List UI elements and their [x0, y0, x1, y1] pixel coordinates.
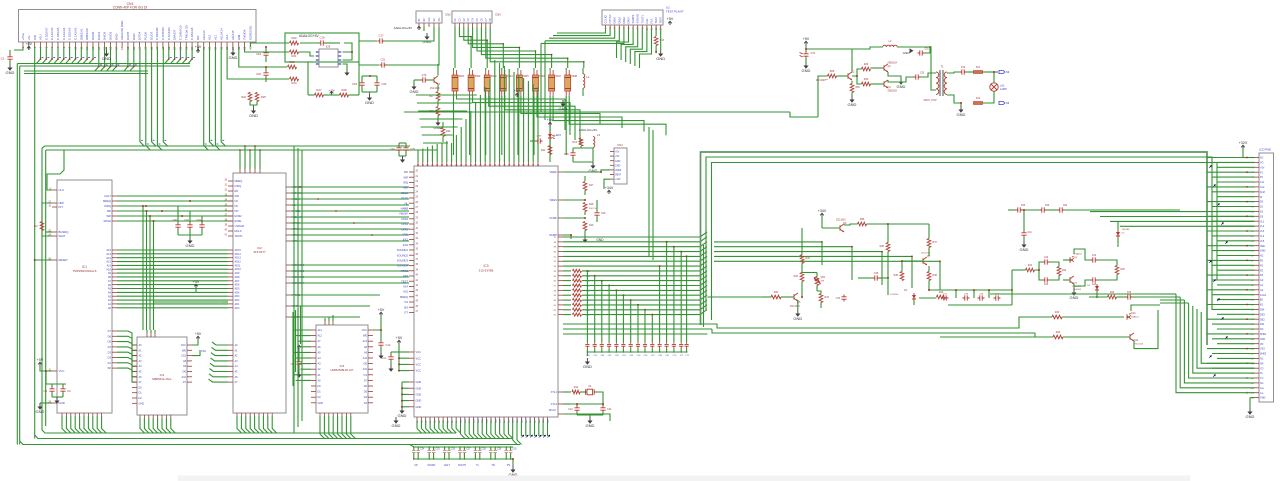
svg-text:GND: GND	[114, 34, 118, 40]
capacitor C66 on video line	[643, 342, 647, 348]
svg-text:VCC: VCC	[362, 329, 367, 332]
Q5 network wires	[801, 264, 803, 273]
wire VREF IC3 to CN4	[563, 170, 610, 172]
resistor R56 under Q2	[850, 84, 854, 93]
capacitor C58 on video line	[585, 342, 589, 348]
IC3 left VCC pins	[409, 351, 414, 353]
diode D3 and R46 C46 row	[1095, 286, 1099, 290]
svg-text:AD4: AD4	[235, 291, 240, 294]
svg-text:SOUND: SOUND	[636, 14, 640, 23]
transistor Q8 2SA612	[1069, 257, 1071, 263]
svg-text:CPA1: CPA1	[401, 222, 408, 226]
svg-text:A12: A12	[208, 34, 212, 40]
svg-text:RD: RD	[404, 170, 408, 174]
resistor R12	[572, 390, 580, 394]
verticals from U2 fan down	[544, 41, 546, 120]
svg-text:VC: VC	[433, 18, 436, 22]
svg-text:TEST: TEST	[401, 279, 408, 283]
capacitor C62 on video line	[614, 342, 618, 348]
ground under R22 R25	[253, 105, 255, 107]
svg-text:+5V: +5V	[396, 336, 403, 340]
svg-text:LAMP: LAMP	[1000, 88, 1007, 91]
svg-text:YU: YU	[1260, 377, 1264, 380]
svg-text:PS: PS	[507, 464, 511, 467]
sound ribbon IC2 to IC3	[291, 264, 380, 266]
svg-text:GND: GND	[392, 423, 401, 428]
svg-text:20K: 20K	[821, 281, 825, 283]
svg-text:NC: NC	[1260, 328, 1264, 331]
svg-text:+5V: +5V	[615, 151, 620, 154]
svg-text:ANALOG+5V: ANALOG+5V	[299, 34, 320, 38]
resistor R41	[1026, 268, 1035, 272]
svg-text:D3/D1: D3/D1	[97, 31, 101, 40]
svg-text:IC3: IC3	[484, 264, 489, 268]
svg-text:HALT: HALT	[104, 194, 111, 198]
svg-text:R17: R17	[589, 184, 594, 187]
vertical pair from CN4 area down to bus	[648, 127, 650, 256]
svg-text:R34: R34	[825, 296, 830, 299]
svg-text:GND: GND	[318, 402, 324, 405]
Q10 Q11 output wires	[1131, 305, 1160, 311]
svg-text:+5V: +5V	[803, 37, 810, 41]
svg-text:RD: RD	[235, 189, 239, 193]
svg-text:CPN: CPN	[402, 233, 408, 237]
wire +5V at IC4 right	[197, 337, 199, 340]
svg-text:A1: A1	[108, 302, 112, 306]
long video pair lines to right section	[563, 323, 708, 325]
svg-text:VCC: VCC	[181, 344, 186, 347]
svg-text:A11: A11	[363, 357, 368, 360]
svg-text:C74: C74	[390, 148, 395, 151]
svg-text:C50: C50	[1045, 205, 1050, 207]
svg-text:C16: C16	[320, 36, 325, 40]
connector U2 TEST POINT	[602, 10, 663, 25]
capacitor C17	[359, 40, 377, 42]
filter DM7	[549, 75, 555, 91]
svg-text:C45: C45	[564, 153, 569, 156]
svg-text:RFSH: RFSH	[104, 219, 111, 223]
svg-text:A9: A9	[108, 271, 112, 275]
svg-text:HIM: HIM	[237, 34, 241, 40]
svg-text:VCMF: VCMF	[549, 216, 557, 220]
bus hatch group under IC2	[237, 421, 242, 433]
svg-text:C12: C12	[386, 343, 391, 347]
IC3 top pins and fan	[417, 162, 419, 166]
svg-text:MREQ: MREQ	[103, 199, 111, 203]
video lines extending right to transistor stages	[714, 241, 822, 243]
svg-text:GND: GND	[416, 399, 422, 403]
svg-text:+3V: +3V	[514, 89, 521, 93]
capacitor C21	[359, 64, 379, 66]
svg-text:A4: A4	[108, 291, 112, 295]
svg-text:R14: R14	[572, 141, 577, 144]
svg-text:NC: NC	[235, 199, 239, 203]
capacitors C18 C22	[361, 76, 363, 81]
wire RESET	[35, 259, 52, 261]
ground under crystal	[589, 415, 591, 417]
svg-text:TR: TR	[491, 464, 495, 467]
video ribbon IC2 to IC3	[291, 186, 409, 188]
svg-text:GND: GND	[1260, 250, 1266, 253]
svg-text:VCC: VCC	[416, 363, 422, 367]
svg-text:C4: C4	[67, 389, 71, 393]
ground under CN2	[426, 33, 428, 37]
bus hatch group under IC1	[62, 421, 67, 433]
svg-text:D60A: D60A	[613, 17, 617, 24]
svg-text:A7: A7	[108, 279, 112, 283]
wires filter inputs	[255, 42, 289, 44]
svg-text:GND: GND	[615, 160, 621, 163]
svg-text:A6: A6	[108, 283, 112, 287]
svg-text:AD2: AD2	[235, 299, 240, 302]
filter box edge verticals down to rail	[307, 62, 309, 95]
capacitor C59 on video line	[593, 342, 597, 348]
svg-text:TAP: TAP	[403, 274, 408, 278]
svg-text:CS2: CS2	[201, 350, 206, 353]
capacitor C61 on video line	[607, 342, 611, 348]
ground stem at LCD bottom	[1249, 398, 1251, 408]
svg-text:LED1: LED1	[555, 133, 562, 137]
svg-text:NC: NC	[1260, 255, 1264, 258]
svg-text:DM8: DM8	[572, 74, 578, 78]
resistors R27 R28 between rails	[315, 93, 324, 97]
svg-text:2SC1623: 2SC1623	[430, 88, 440, 90]
svg-text:R45: R45	[1121, 269, 1126, 271]
svg-text:2SA612: 2SA612	[1074, 253, 1083, 256]
svg-text:C75: C75	[411, 148, 416, 151]
svg-text:C.1B2/D5: C.1B2/D5	[155, 27, 159, 40]
svg-text:2SA612: 2SA612	[1131, 316, 1140, 319]
svg-text:DOWN: DOWN	[427, 464, 435, 467]
svg-text:IORQ: IORQ	[104, 204, 111, 208]
capacitor C11 at IC3 VCC	[390, 352, 392, 355]
capacitor C16	[319, 40, 326, 45]
IC IC4 MB8464A-15LL	[137, 337, 187, 415]
ground under divider	[584, 236, 586, 240]
IC2 top pins	[239, 169, 241, 173]
resistor R42b	[1057, 267, 1061, 276]
IC3 right clock pins	[558, 391, 563, 393]
svg-text:R28: R28	[342, 88, 347, 92]
svg-text:+5V: +5V	[547, 118, 554, 122]
trimmer VR1	[815, 277, 819, 286]
capacitor pair C30 for PS	[505, 447, 507, 450]
IC5 left pins	[311, 329, 316, 331]
svg-text:C20: C20	[256, 72, 261, 76]
svg-text:+5V: +5V	[195, 332, 202, 336]
mesh ladder caps C34 C35	[841, 295, 846, 302]
IC3 left GND wiring	[401, 382, 403, 407]
svg-text:R32: R32	[794, 275, 799, 278]
IC3 bottom fan tier1	[416, 421, 418, 429]
svg-text:AD1: AD1	[235, 303, 240, 306]
IC1 right data pins	[112, 330, 117, 332]
svg-text:C51: C51	[925, 49, 930, 51]
svg-text:R25: R25	[261, 95, 266, 99]
svg-text:R19: R19	[589, 224, 594, 227]
svg-text:C41: C41	[1028, 232, 1033, 234]
svg-text:TAP2: TAP2	[654, 17, 658, 24]
svg-text:R21: R21	[292, 54, 297, 58]
svg-text:LEFT: LEFT	[444, 464, 451, 467]
svg-text:1SS184: 1SS184	[890, 294, 899, 296]
wire CN1 pin1 to C1	[14, 47, 23, 50]
svg-text:C77: C77	[537, 135, 542, 138]
svg-text:D6/D5: D6/D5	[126, 31, 130, 40]
capacitor C77 near LED	[536, 138, 543, 143]
connector CN4	[614, 148, 627, 184]
wire CLK into IC1 from left bus	[47, 150, 64, 190]
svg-text:A12: A12	[318, 335, 323, 338]
svg-text:SOUND1: SOUND1	[397, 248, 409, 252]
svg-text:GND: GND	[102, 56, 111, 61]
svg-text:NTSC: NTSC	[401, 269, 408, 273]
svg-text:A11: A11	[107, 264, 112, 268]
svg-text:TEST PLANT: TEST PLANT	[666, 10, 684, 14]
IC IC3 315-5378B	[414, 166, 558, 417]
audio feed wire turning up	[818, 76, 828, 117]
svg-text:ANALOG+5V: ANALOG+5V	[394, 26, 413, 30]
svg-text:CERES/OL: CERES/OL	[249, 25, 253, 40]
svg-text:R33: R33	[806, 257, 811, 260]
ground under Q8 Q9	[1073, 284, 1075, 289]
svg-text:GND: GND	[398, 413, 407, 418]
capacitors C13 C14	[576, 404, 578, 406]
svg-text:C32: C32	[920, 73, 925, 75]
svg-text:MREQ: MREQ	[400, 295, 408, 299]
svg-text:D62A: D62A	[622, 17, 626, 24]
IC1 right address pins	[112, 249, 117, 251]
svg-text:CCLK2: CCLK2	[604, 15, 608, 24]
capacitor C60 on video line	[600, 342, 604, 348]
caps to LCD lines	[1090, 211, 1255, 213]
svg-text:NO: NO	[196, 35, 200, 40]
filter DM1	[452, 75, 458, 91]
svg-text:C36: C36	[874, 272, 879, 275]
resistor R42 below	[441, 128, 445, 137]
IC1 bottom pins	[61, 413, 63, 416]
data ribbon IC1 to IC4	[117, 331, 137, 345]
svg-text:CL1: CL1	[1260, 181, 1265, 184]
svg-text:CSRAM: CSRAM	[235, 224, 244, 228]
svg-text:FU1: FU1	[976, 67, 981, 69]
svg-text:WAIT: WAIT	[59, 234, 66, 238]
svg-text:CLK: CLK	[59, 188, 65, 192]
svg-text:WR: WR	[33, 35, 37, 40]
bus B pair below CN1	[24, 70, 148, 72]
IC1 right control pins	[112, 195, 117, 197]
svg-text:C31: C31	[811, 52, 816, 55]
svg-text:A9/A15: A9/A15	[231, 30, 235, 40]
resistor R31	[771, 295, 781, 299]
svg-text:D0B1/A0: D0B1/A0	[85, 28, 89, 40]
svg-text:C45: C45	[1092, 284, 1097, 286]
svg-text:VBLNK: VBLNK	[399, 212, 408, 216]
svg-text:CLA3: CLA3	[1260, 294, 1267, 297]
supply +3V at CN1 pin 31	[197, 47, 199, 53]
svg-text:+32V: +32V	[1239, 141, 1248, 145]
svg-text:HABB: HABB	[401, 207, 409, 211]
svg-text:1SS184: 1SS184	[1122, 229, 1131, 231]
capacitor pair C27 for RIGHT	[459, 447, 461, 450]
svg-text:C28: C28	[482, 449, 487, 451]
svg-text:A10: A10	[363, 368, 368, 371]
svg-text:A1A: A1A	[225, 34, 229, 40]
feeder entries from video transistors	[1160, 293, 1176, 295]
T1 primary wires	[921, 73, 937, 77]
ladder wires	[929, 289, 1012, 291]
bottom feeder nested loops into LCD	[1176, 294, 1255, 393]
capacitor pair C28 for TL	[474, 447, 476, 450]
svg-text:IC5: IC5	[340, 364, 345, 368]
svg-text:EXM1: EXM1	[235, 219, 243, 223]
svg-text:F0A: F0A	[645, 18, 649, 23]
IC4 left pins	[132, 344, 137, 346]
blue net arrows on LCD bundle	[1209, 165, 1212, 168]
svg-text:LA-: LA-	[1260, 392, 1264, 395]
svg-text:MCLK: MCLK	[235, 229, 242, 233]
svg-text:GND: GND	[957, 112, 966, 117]
svg-text:GND: GND	[36, 409, 45, 414]
svg-text:R42: R42	[446, 130, 451, 133]
resistor R33	[800, 255, 804, 264]
svg-text:C19: C19	[256, 52, 261, 56]
svg-text:XR: XR	[1260, 362, 1264, 365]
svg-text:+5V: +5V	[615, 155, 620, 158]
svg-text:+34V: +34V	[615, 178, 621, 181]
svg-text:TRB.D#.1D: TRB.D#.1D	[184, 25, 188, 40]
svg-text:CN3: CN3	[495, 13, 501, 17]
junction dots ladder	[928, 289, 930, 291]
svg-text:AD10: AD10	[235, 268, 242, 271]
IC IC1 TMPZ84C00AH-6	[57, 180, 112, 413]
resistor R43 line to Q10	[1052, 315, 1062, 319]
svg-text:VR1: VR1	[821, 276, 826, 279]
svg-text:TBST: TBST	[659, 16, 663, 23]
svg-text:A14: A14	[403, 285, 408, 289]
LCD bundle feeder horizontals	[1207, 157, 1255, 159]
svg-text:D4: D4	[108, 345, 112, 349]
svg-text:GND: GND	[802, 68, 811, 73]
capacitor C41	[1023, 210, 1025, 231]
svg-text:YD: YD	[1260, 367, 1264, 370]
filter DM4	[500, 75, 506, 91]
ground for buttons	[512, 459, 514, 466]
divider R17b R18 R19 and C49	[584, 176, 586, 181]
svg-text:GND: GND	[186, 243, 195, 248]
capacitor pair C24 for UP	[413, 447, 415, 450]
svg-text:AD6: AD6	[235, 284, 240, 287]
svg-text:MREQ: MREQ	[235, 179, 243, 183]
svg-text:Q10: Q10	[1131, 313, 1136, 315]
svg-text:A14: A14	[318, 329, 323, 332]
svg-text:R2: R2	[34, 224, 38, 228]
svg-text:GND: GND	[559, 106, 568, 111]
capacitor C67 on video line	[650, 342, 654, 348]
svg-text:C25: C25	[435, 449, 440, 451]
lamp LA1	[990, 83, 998, 91]
svg-text:GND: GND	[848, 102, 857, 107]
svg-text:C.1D5/D6: C.1D5/D6	[161, 27, 165, 40]
svg-text:C61: C61	[184, 219, 189, 222]
svg-text:D1: D1	[108, 361, 112, 365]
IC1 left pins	[52, 189, 57, 191]
svg-text:CPA2: CPA2	[401, 227, 408, 231]
svg-text:IORQ: IORQ	[235, 184, 242, 188]
svg-text:PL/D6: PL/D6	[144, 32, 148, 40]
IC4 bottom pins	[139, 415, 141, 418]
capacitor C36	[887, 252, 889, 279]
feed wire to Q5	[708, 296, 763, 298]
svg-text:VCLK: VCLK	[401, 196, 408, 200]
svg-text:GND: GND	[897, 84, 906, 89]
scan artifact strip at bottom	[178, 476, 1190, 481]
wire loop around analog filter	[285, 33, 359, 62]
svg-text:A10: A10	[106, 267, 111, 271]
ground under U2	[660, 29, 662, 50]
svg-text:VCC: VCC	[416, 369, 422, 373]
svg-text:INT: INT	[59, 205, 64, 209]
bus B entries from CN1 pins	[98, 47, 100, 67]
svg-text:A3: A3	[108, 294, 112, 298]
svg-text:D7: D7	[108, 329, 112, 333]
inductor L1	[583, 74, 585, 88]
svg-text:TMPZ84C00AH-6: TMPZ84C00AH-6	[73, 269, 97, 273]
+34V stub under CN4	[604, 179, 610, 189]
svg-text:FLM: FLM	[1260, 191, 1265, 194]
bottom bus line 1	[42, 148, 456, 433]
svg-text:CS: CS	[404, 300, 408, 304]
connector LCD PAD	[1259, 153, 1274, 402]
svg-text:BS: BS	[404, 305, 408, 309]
DM output lines to audio	[404, 111, 790, 113]
capacitor row ground rail	[587, 351, 686, 353]
U2 wire fan down	[617, 29, 629, 58]
svg-text:A9/A13: A9/A13	[202, 30, 206, 40]
svg-text:VO: VO	[1260, 162, 1264, 165]
svg-text:R20: R20	[292, 36, 297, 40]
svg-text:+3V: +3V	[195, 45, 202, 49]
svg-text:A15: A15	[403, 290, 408, 294]
net flag lamp minus	[999, 101, 1005, 104]
svg-text:AD3: AD3	[235, 295, 240, 298]
svg-text:NC: NC	[1260, 382, 1264, 385]
drop wires to capacitor row	[586, 270, 588, 272]
resistor R20	[290, 41, 299, 45]
resistor R14	[579, 138, 583, 146]
svg-text:D4/D3: D4/D3	[103, 31, 107, 40]
T1 secondary wires	[947, 72, 960, 73]
svg-text:R43: R43	[1055, 311, 1060, 314]
wires L3 R14	[573, 147, 593, 149]
svg-text:CN4: CN4	[617, 143, 623, 147]
caps C53 C50 C52 row to LCD	[1016, 207, 1023, 212]
vertical bus right of IC3 rising to LCD bundle	[701, 152, 1208, 345]
svg-text:GND: GND	[583, 364, 592, 369]
Q6 collector to R35	[858, 222, 867, 226]
svg-text:C21: C21	[381, 58, 386, 62]
capacitor C64 on video line	[629, 342, 633, 348]
control bus ribbon IC1 to IC2	[117, 195, 233, 197]
svg-text:L1: L1	[587, 75, 591, 79]
IC2 left pins AD bus	[228, 249, 233, 251]
IC2 right pins sound	[286, 264, 291, 266]
svg-text:HL: HL	[405, 201, 409, 205]
resistor R39	[900, 272, 904, 281]
svg-text:C.1B2/A7: C.1B2/A7	[44, 27, 48, 40]
svg-text:LCD PAD: LCD PAD	[1259, 148, 1271, 152]
svg-text:R36: R36	[880, 245, 885, 248]
